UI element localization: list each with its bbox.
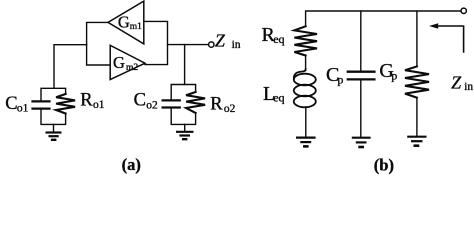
svg-text:m1: m1 xyxy=(130,22,142,32)
svg-text:p: p xyxy=(337,72,343,86)
svg-text:Z: Z xyxy=(451,72,462,92)
svg-text:o2: o2 xyxy=(224,103,236,115)
svg-text:Z: Z xyxy=(215,30,226,50)
svg-text:eq: eq xyxy=(273,32,284,46)
svg-text:R: R xyxy=(210,95,223,115)
svg-text:o1: o1 xyxy=(17,102,29,114)
svg-text:in: in xyxy=(232,39,241,51)
svg-text:o2: o2 xyxy=(146,99,158,111)
svg-text:G: G xyxy=(113,53,125,72)
svg-text:G: G xyxy=(118,13,130,32)
svg-text:p: p xyxy=(391,68,397,82)
svg-text:C: C xyxy=(134,91,146,111)
svg-text:m2: m2 xyxy=(126,63,138,73)
svg-text:o1: o1 xyxy=(93,99,105,111)
svg-text:(a): (a) xyxy=(122,155,141,174)
svg-text:(b): (b) xyxy=(374,155,394,174)
svg-text:C: C xyxy=(5,94,17,114)
svg-text:eq: eq xyxy=(273,91,284,105)
svg-text:R: R xyxy=(80,91,93,111)
svg-text:in: in xyxy=(464,81,473,93)
